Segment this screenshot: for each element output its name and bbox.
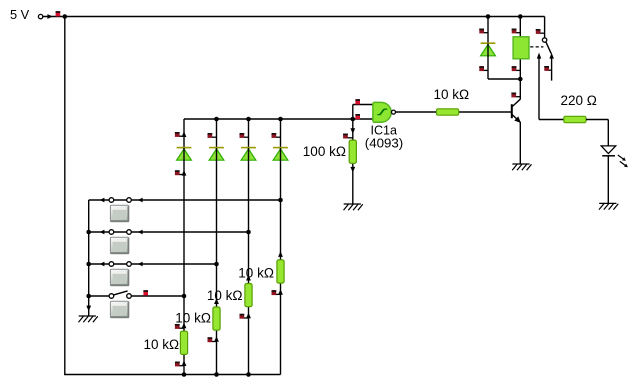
ground under LED [599, 203, 618, 209]
junction row3-col2 [214, 262, 219, 267]
wire column 2 [216, 119, 218, 375]
transistor Q1 emitter [512, 115, 520, 123]
wire through diode D1 [183, 148, 185, 161]
red square row 4 [143, 290, 148, 295]
resistor R6 220 [564, 116, 586, 122]
wire NC stub [551, 58, 553, 80]
current arrow left row 2 (b) [138, 230, 143, 235]
switch SW3 contact ring right [127, 262, 132, 267]
node junction top-left [63, 14, 68, 19]
red square NC pin [544, 66, 551, 71]
red square contact common [536, 29, 545, 34]
red square gate input top [355, 99, 360, 104]
label R5 10 kOhm [434, 87, 470, 102]
junction relay top [518, 14, 523, 19]
junction row2-col3 [246, 230, 251, 235]
red square relay top pin [512, 29, 521, 34]
resistor R5 10k [437, 109, 459, 115]
label R1 10 kOhm [144, 337, 180, 352]
switch SW1 contact ring right [127, 198, 132, 203]
wire through diode D3 [248, 148, 250, 161]
current arrow left row 3 (a) [100, 262, 105, 267]
current arrow up above D1 [182, 131, 187, 137]
current arrow up above R3 [246, 275, 251, 281]
current arrow up below R4 [278, 289, 283, 295]
diode D4 [273, 148, 288, 161]
label 4093 [365, 136, 403, 151]
resistor R7 100k [349, 140, 356, 163]
LED D6 cathode bar [602, 155, 615, 157]
wire row 4 left segment [89, 295, 110, 297]
wire column 1 [183, 119, 185, 375]
switch SW2 contact ring right [127, 230, 132, 235]
current arrow up below R3 [246, 313, 251, 319]
wire button bus [88, 200, 90, 316]
label R3 10 kOhm [207, 288, 243, 303]
junction row2-left [86, 230, 91, 235]
transistor Q1 emitter arrow [514, 116, 521, 123]
label 220 Ohm [561, 93, 597, 108]
contact moving arm [546, 42, 551, 54]
red square transistor collector [511, 93, 520, 98]
svg-text:5 V: 5 V [10, 7, 30, 22]
current arrow down above R7 [350, 128, 355, 134]
svg-text:10 kΩ: 10 kΩ [238, 265, 274, 280]
red square D4 cathode [272, 133, 281, 138]
label R4 10 kOhm [238, 265, 274, 280]
wire row 2 [89, 231, 249, 233]
switch SW1 contact ring left [109, 198, 114, 203]
wire through D5 [487, 44, 489, 57]
corner col1 top [0, 0, 1, 1]
red square above R1 [175, 324, 184, 329]
junction row4-col1 [182, 294, 187, 299]
label R2 10 kOhm [175, 310, 211, 325]
junction col3-top bus [246, 117, 251, 122]
red square below R2 [208, 337, 217, 342]
wire column 4 [280, 119, 282, 375]
contact throw NC arrow [549, 53, 554, 59]
wire row 1 [89, 199, 281, 201]
wire emitter to ground [519, 122, 521, 164]
NAND gate output bubble [392, 110, 396, 114]
red square D1 cathode [175, 132, 184, 137]
junction col4-top bus [278, 117, 283, 122]
wire gate lower input [353, 118, 374, 120]
switch SW4 moving bar [114, 291, 128, 295]
wire diode bus to gate [184, 118, 353, 120]
wire LED to ground [607, 156, 609, 204]
junction col1-bottom bus [182, 372, 187, 377]
resistor R2 10k [213, 307, 220, 330]
wire R6 to LED [586, 120, 608, 146]
ground under R7 [344, 204, 363, 210]
current arrow down below R7 [350, 167, 355, 173]
dashed link relay to contact [530, 46, 543, 48]
junction diode D5 top [486, 14, 491, 19]
diode D2 [209, 148, 224, 161]
push button SW3 cap [110, 269, 128, 286]
red square below R4 [272, 290, 281, 295]
resistor R3 10k [245, 284, 252, 307]
transistor Q1 collector [512, 99, 520, 106]
current arrow left row 3 (b) [138, 262, 143, 267]
switch SW3 contact ring left [109, 262, 114, 267]
switch SW2 contact ring left [109, 230, 114, 235]
junction row4-left [86, 294, 91, 299]
wire through diode D2 [216, 148, 218, 161]
resistor R1 10k [180, 331, 187, 354]
label IC1a [371, 124, 397, 138]
contact throw NO arrow [537, 53, 542, 59]
LED D6 triangle [601, 146, 616, 154]
wire 100k branch [352, 119, 354, 204]
wire left rail down [64, 17, 66, 375]
red square relay bottom pin [512, 66, 521, 71]
wire D5 bottom link [488, 78, 520, 80]
switch SW4 contact ring right [127, 294, 132, 299]
transistor Q1 base bar [511, 104, 513, 118]
current arrow down to ground [86, 306, 91, 312]
red square gate input bottom [355, 114, 360, 119]
svg-text:10 kΩ: 10 kΩ [175, 310, 211, 325]
red square D1 anode [175, 170, 184, 175]
label 100 kOhm [303, 144, 346, 159]
junction gate input node [351, 117, 356, 122]
contact pivot ring [542, 38, 546, 42]
push button SW1 cap [110, 205, 128, 222]
red square D5 anode [479, 66, 488, 71]
red square below R3 [240, 314, 249, 319]
LED emission arrows [618, 155, 628, 167]
svg-text:10 kΩ: 10 kΩ [207, 288, 243, 303]
red square at 5V wire [56, 11, 61, 16]
current arrow up below R1 [182, 360, 187, 366]
red square below R1 [175, 362, 184, 367]
current arrow up above R2 [214, 298, 219, 304]
junction relay bottom [518, 77, 523, 82]
push button SW4 cap [110, 301, 128, 318]
wire row 4 right segment [131, 295, 184, 297]
junction col2-top bus [214, 117, 219, 122]
current arrow up below D1 [182, 170, 187, 176]
wire bottom bus [64, 374, 280, 376]
junction row1-col4 [278, 198, 283, 203]
svg-text:10 kΩ: 10 kΩ [144, 337, 180, 352]
red square above R7 [343, 134, 353, 139]
diode D3 [241, 148, 256, 161]
current arrow left row 1 (b) [138, 198, 143, 203]
red square D5 cathode [479, 29, 488, 34]
svg-text:100 kΩ: 100 kΩ [303, 144, 346, 159]
wire relay column [519, 17, 521, 100]
wire gate output to base [396, 111, 512, 113]
power terminal circle [38, 14, 42, 18]
red square D2 cathode [208, 133, 217, 138]
wire top bus from 5V to relay contact [43, 16, 545, 18]
current arrow up below R2 [214, 336, 219, 342]
current arrow left row 2 (a) [100, 230, 105, 235]
wire contact common [544, 17, 546, 38]
junction col3-bottom bus [246, 372, 251, 377]
wire column 3 [248, 119, 250, 375]
resistor R4 10k [277, 260, 284, 283]
switch SW4 contact ring left [109, 294, 114, 299]
ground under buttons [79, 316, 98, 322]
svg-text:220 Ω: 220 Ω [561, 93, 597, 108]
current arrow left row 1 (a) [100, 198, 105, 203]
current arrow up above R1 [182, 323, 187, 329]
current arrow right on top bus [47, 14, 52, 19]
svg-text:10 kΩ: 10 kΩ [434, 87, 470, 102]
wire NO throw down [539, 58, 564, 119]
wire gate input jog up [353, 105, 374, 120]
wire D5 branch [487, 17, 489, 80]
diode D1 [177, 148, 192, 161]
wire through diode D4 [280, 148, 282, 161]
relay RL1 coil [513, 37, 529, 59]
power terminal 5V label [10, 7, 30, 22]
push button SW2 cap [110, 237, 128, 254]
junction col2-bottom bus [214, 372, 219, 377]
flyback diode D5 [481, 43, 496, 56]
current arrow up above R4 [278, 251, 283, 257]
red square D3 cathode [240, 133, 249, 138]
ground under Q1 [512, 164, 531, 170]
svg-text:(4093): (4093) [365, 136, 403, 151]
junction row3-left [86, 262, 91, 267]
wire row 3 [89, 263, 217, 265]
NAND gate IC1a body [373, 102, 391, 122]
